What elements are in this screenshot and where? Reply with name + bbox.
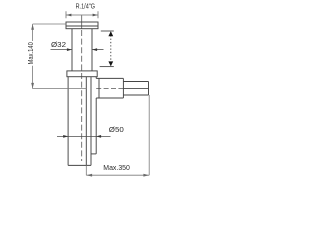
svg-text:Max.350: Max.350	[103, 163, 130, 172]
svg-text:R.1/4"G: R.1/4"G	[76, 3, 95, 10]
svg-text:Ø32: Ø32	[51, 42, 66, 49]
svg-text:Ø50: Ø50	[109, 127, 124, 134]
svg-text:Max.140: Max.140	[28, 42, 35, 64]
